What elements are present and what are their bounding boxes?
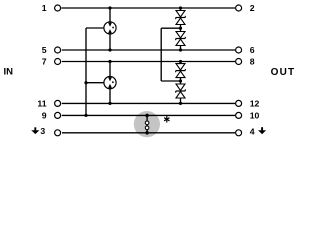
junction row5/TVS	[179, 48, 182, 51]
wire vertical TVS chain upper	[180, 8, 182, 50]
junction row11/F2	[108, 102, 111, 105]
pin number 11	[37, 99, 46, 109]
terminal 1	[55, 5, 61, 11]
wire stub F2 electrode to left bus	[86, 82, 104, 84]
gas discharge tube F1	[104, 22, 116, 34]
terminal 9	[55, 112, 61, 118]
svg-text:10: 10	[250, 111, 260, 121]
wire left earth bus vertical	[85, 28, 87, 115]
terminal 8	[236, 59, 242, 65]
junction row7/TVS	[179, 60, 182, 63]
wire TVS midpoint tie (upper stub)	[161, 27, 180, 29]
pin number 3	[40, 126, 45, 136]
suppressor diode D3	[176, 64, 186, 78]
junction row5/F1	[108, 48, 111, 51]
gas discharge tube F2	[104, 77, 116, 89]
suppressor diode D2	[176, 32, 186, 46]
svg-text:7: 7	[42, 57, 47, 67]
wire TVS midpoint tie (lower stub)	[161, 80, 180, 82]
wire line 9-10	[62, 114, 235, 116]
pin number 1	[42, 3, 47, 13]
svg-text:OUT: OUT	[271, 67, 296, 78]
junction row3/disconnect	[145, 131, 149, 135]
terminal 7	[55, 59, 61, 65]
wire vertical through gas discharge tube F1	[109, 8, 111, 50]
svg-text:4: 4	[250, 126, 255, 136]
svg-text:2: 2	[250, 3, 255, 13]
terminal 4	[236, 130, 242, 136]
svg-text:3: 3	[40, 126, 45, 136]
junction TVS midpoint upper	[179, 27, 182, 30]
wire line 1-2	[61, 7, 235, 9]
terminal 10	[236, 112, 242, 118]
junction row7/F2	[108, 60, 111, 63]
disconnect contact lower	[145, 126, 149, 130]
svg-text:9: 9	[42, 111, 47, 121]
wire stub F1 electrode to left bus	[86, 27, 104, 29]
disconnect-device highlight circle	[134, 111, 160, 137]
svg-text:12: 12	[250, 99, 260, 109]
ground arrow right	[258, 127, 266, 134]
wire line 5-6	[62, 49, 235, 51]
wire vertical TVS chain lower	[180, 61, 182, 103]
terminal 6	[236, 47, 242, 53]
junction row1/TVS	[179, 6, 182, 9]
pin number 6	[250, 45, 255, 55]
pin number 4	[250, 126, 255, 136]
ground arrow left	[31, 127, 39, 134]
suppressor diode D4	[176, 84, 186, 98]
terminal 5	[55, 47, 61, 53]
junction earth bus / row9	[84, 114, 87, 117]
junction TVS midpoint lower	[179, 79, 182, 82]
pin number 7	[42, 57, 47, 67]
svg-text:1: 1	[42, 3, 47, 13]
wire line 11-12	[62, 102, 235, 104]
wire line 3-4	[62, 132, 235, 134]
asterisk marker	[165, 117, 170, 122]
junction row1/F1	[108, 6, 111, 9]
terminal 12	[236, 100, 242, 106]
wire line 7-8	[62, 61, 235, 63]
svg-text:11: 11	[37, 99, 46, 109]
svg-text:8: 8	[250, 57, 255, 67]
svg-text:IN: IN	[4, 66, 14, 77]
wire TVS midpoint tie (vertical)	[160, 28, 162, 81]
pin number 8	[250, 57, 255, 67]
pin number 5	[42, 45, 47, 55]
disconnect contact upper	[145, 121, 149, 125]
pin number 12	[250, 99, 260, 109]
junction F2 stub / earth bus	[84, 81, 87, 84]
junction row9/disconnect	[145, 114, 149, 118]
terminal 11	[55, 100, 61, 106]
junction row11/TVS	[179, 102, 182, 105]
wire vertical through gas discharge tube F2	[109, 62, 111, 104]
label IN	[4, 66, 14, 77]
svg-text:6: 6	[250, 45, 255, 55]
terminal 3	[55, 130, 61, 136]
pin number 9	[42, 111, 47, 121]
terminal 2	[236, 5, 242, 11]
svg-text:5: 5	[42, 45, 47, 55]
suppressor diode D1	[176, 11, 186, 25]
wire disconnect vertical row9 to row3	[146, 115, 148, 132]
label OUT	[271, 67, 296, 78]
pin number 2	[250, 3, 255, 13]
pin number 10	[250, 111, 260, 121]
